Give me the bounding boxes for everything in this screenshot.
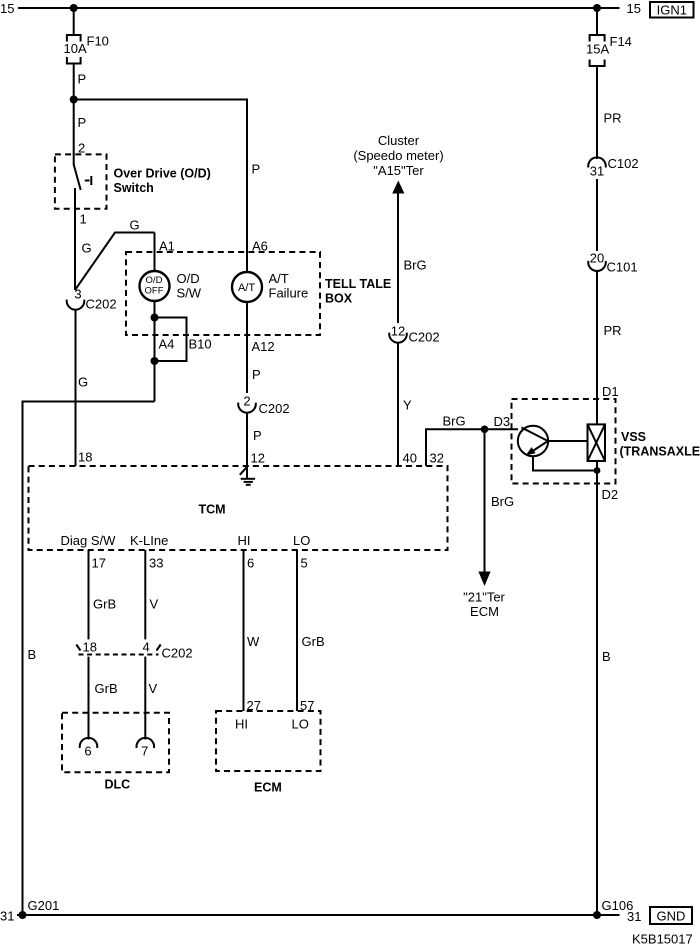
wire A/T lamp to connector 2 (246, 302, 248, 393)
GND box (650, 907, 692, 924)
sensor arrow tip (526, 447, 536, 455)
VSS box (512, 399, 616, 484)
svg-text:PR: PR (604, 323, 622, 338)
svg-text:P: P (252, 162, 261, 177)
svg-text:31: 31 (0, 909, 14, 924)
svg-text:G: G (82, 241, 92, 256)
node A4 bottom (151, 357, 159, 365)
svg-text:D2: D2 (602, 487, 619, 502)
wire switch pin 1 down (74, 188, 76, 290)
svg-text:P: P (78, 115, 87, 130)
svg-text:17: 17 (92, 556, 106, 571)
Over Drive switch box (55, 154, 107, 208)
wire connector 20 to VSS D1 (596, 271, 598, 425)
wire C202-3 to TCM pin 18 (75, 309, 77, 466)
svg-text:7: 7 (141, 744, 148, 759)
svg-text:G: G (130, 218, 140, 233)
wire bus to F10 (73, 8, 75, 35)
svg-text:31: 31 (590, 164, 604, 179)
svg-text:31: 31 (627, 909, 641, 924)
node D3 (481, 426, 489, 434)
svg-text:2: 2 (78, 141, 85, 156)
svg-text:C202: C202 (259, 401, 290, 416)
svg-text:D3: D3 (494, 414, 511, 429)
svg-text:A/T: A/T (238, 282, 255, 294)
wire cluster arrow shaft (397, 191, 399, 323)
connector 12 C202 (389, 333, 407, 343)
svg-text:Over Drive (O/D): Over Drive (O/D) (114, 167, 211, 181)
svg-text:3: 3 (74, 287, 81, 302)
svg-text:ECM: ECM (254, 781, 282, 795)
svg-text:6: 6 (247, 556, 254, 571)
svg-text:20: 20 (590, 251, 604, 266)
wire connector 2 to TCM pin 12 (246, 412, 248, 466)
svg-text:10A: 10A (64, 41, 87, 56)
svg-text:A4: A4 (159, 337, 175, 352)
svg-text:C202: C202 (162, 646, 193, 661)
svg-text:D1: D1 (602, 384, 619, 399)
wire D3 to ECM arrow (484, 429, 486, 573)
svg-text:5: 5 (301, 556, 308, 571)
wire connector 18 to DLC pin 6 (88, 657, 90, 740)
svg-text:Cluster: Cluster (378, 133, 420, 148)
svg-text:Diag S/W: Diag S/W (61, 533, 117, 548)
wire connector 31 to connector 20 (596, 179, 598, 251)
svg-text:TELL TALE: TELL TALE (325, 277, 391, 291)
ECM box (216, 711, 321, 771)
node at fuse F14 tap (593, 4, 601, 12)
svg-text:Switch: Switch (114, 181, 154, 195)
svg-text:ECM: ECM (470, 604, 499, 619)
svg-text:W: W (247, 634, 260, 649)
wire X-box to D2 node (596, 461, 598, 471)
pickup coil X-box (588, 424, 606, 461)
node at fuse F10 tap (70, 4, 78, 12)
svg-text:O/D: O/D (177, 271, 200, 286)
svg-text:GND: GND (657, 909, 686, 924)
TELL TALE BOX (126, 252, 320, 335)
svg-text:Y: Y (403, 398, 412, 413)
node above D2 (594, 467, 601, 474)
svg-text:P: P (252, 367, 261, 382)
wire ground run to left edge (23, 402, 155, 916)
svg-text:VSS: VSS (621, 430, 646, 444)
connector 3 C202 (67, 300, 85, 310)
ground inside TCM (246, 466, 248, 479)
svg-text:P: P (78, 72, 87, 87)
wire lamp to node A4 (154, 301, 156, 402)
svg-text:BrG: BrG (491, 494, 514, 509)
wire TCM pin 6 to ECM HI (243, 550, 245, 711)
svg-text:"A15"Ter: "A15"Ter (373, 163, 424, 178)
svg-text:40: 40 (403, 451, 417, 466)
svg-text:32: 32 (430, 451, 444, 466)
wire D2 to ground bus (596, 471, 598, 916)
svg-text:OFF: OFF (145, 286, 164, 297)
svg-text:15: 15 (0, 1, 14, 16)
connector 2 C202 (238, 403, 256, 413)
svg-text:A12: A12 (252, 339, 275, 354)
svg-text:HI: HI (235, 717, 248, 732)
svg-text:DLC: DLC (105, 778, 131, 792)
wire connector 12 to TCM pin 40 (397, 342, 399, 466)
svg-text:18: 18 (83, 640, 97, 655)
svg-text:F10: F10 (87, 34, 109, 49)
arrow to cluster (392, 181, 404, 194)
node G106 (593, 911, 601, 919)
node A4 top (151, 314, 159, 322)
DLC terminal 6 (80, 738, 98, 748)
svg-text:K5B15017: K5B15017 (632, 932, 693, 947)
sensor pickup lines (522, 428, 548, 442)
svg-text:C101: C101 (607, 260, 638, 275)
svg-text:GrB: GrB (95, 681, 118, 696)
wire top power bus 15 (18, 7, 620, 9)
svg-text:BrG: BrG (404, 258, 427, 273)
svg-text:BOX: BOX (325, 292, 353, 306)
svg-text:F14: F14 (610, 34, 632, 49)
svg-text:12: 12 (391, 324, 405, 339)
svg-text:PR: PR (604, 111, 622, 126)
connector 31 C102 (588, 157, 606, 167)
svg-text:GrB: GrB (302, 634, 325, 649)
svg-text:V: V (149, 681, 158, 696)
wire bottom ground bus (17, 914, 620, 916)
wire branch to A6 lamp (74, 100, 247, 273)
svg-text:LO: LO (292, 717, 309, 732)
wire A1 down to lamp (154, 233, 156, 272)
svg-text:12: 12 (251, 451, 265, 466)
svg-text:K-LIne: K-LIne (130, 533, 168, 548)
switch blade S1 (74, 165, 81, 191)
wire F10 to branch node (73, 64, 75, 100)
DLC box (62, 713, 169, 773)
svg-text:C202: C202 (409, 330, 440, 345)
svg-text:C202: C202 (86, 297, 117, 312)
svg-text:G: G (78, 375, 88, 390)
svg-text:18: 18 (78, 450, 92, 465)
svg-text:HI: HI (238, 533, 251, 548)
svg-text:15: 15 (627, 1, 641, 16)
svg-text:(Speedo meter): (Speedo meter) (353, 148, 443, 163)
svg-text:C102: C102 (608, 156, 639, 171)
svg-text:V: V (150, 597, 159, 612)
wire TCM pin 32 to node D3 (426, 429, 518, 466)
node G201 (19, 911, 27, 919)
svg-text:33: 33 (149, 556, 163, 571)
svg-text:O/D: O/D (146, 275, 163, 286)
svg-text:"21"Ter: "21"Ter (463, 590, 505, 605)
wire TCM pin 5 to ECM LO (296, 550, 298, 711)
svg-text:1: 1 (80, 212, 87, 227)
DLC terminal 7 (137, 738, 155, 748)
svg-text:BrG: BrG (443, 414, 466, 429)
wire connector 4 to DLC pin 7 (144, 657, 146, 740)
wire diagonal to A1 (75, 233, 155, 291)
wire sensor circle to X-box (548, 440, 588, 442)
svg-text:G201: G201 (28, 898, 60, 913)
switch actuator mark (85, 180, 90, 182)
lamp A/T (232, 272, 262, 302)
svg-text:(TRANSAXLE): (TRANSAXLE) (620, 445, 700, 459)
svg-text:P: P (253, 428, 262, 443)
svg-text:TCM: TCM (199, 503, 226, 517)
svg-text:LO: LO (293, 533, 310, 548)
inline connector C202 18/4 (79, 654, 159, 656)
svg-text:6: 6 (84, 744, 91, 759)
IGN1 box (650, 2, 694, 18)
sensor circle VSS (518, 426, 548, 456)
svg-text:GrB: GrB (93, 597, 116, 612)
svg-text:4: 4 (143, 640, 150, 655)
fuse F10 (67, 35, 81, 42)
svg-text:IGN1: IGN1 (657, 3, 687, 18)
svg-text:15A: 15A (586, 42, 609, 57)
lamp O/D OFF (140, 271, 170, 301)
svg-text:A/T: A/T (269, 271, 289, 286)
wire F14 to connector 31 (596, 66, 598, 159)
wire TCM pin 17 to connector 18 (88, 550, 90, 639)
fuse F14 (590, 35, 605, 42)
node branch below F10 (70, 96, 78, 104)
wire node to switch pin 2 (73, 100, 75, 166)
arrow to ECM 21 (478, 572, 490, 587)
wire bus to F14 (596, 8, 598, 35)
svg-text:Failure: Failure (269, 286, 309, 301)
svg-text:B: B (602, 649, 611, 664)
TCM box (29, 466, 448, 550)
connector 20 C101 (588, 261, 606, 271)
wire sensor to node D2 (533, 456, 597, 470)
svg-text:B10: B10 (189, 337, 212, 352)
svg-text:2: 2 (243, 394, 250, 409)
svg-text:B: B (28, 647, 37, 662)
wire TCM pin 33 to connector 4 (144, 550, 146, 639)
svg-text:S/W: S/W (177, 286, 202, 301)
jumper loop B10 (155, 318, 187, 362)
